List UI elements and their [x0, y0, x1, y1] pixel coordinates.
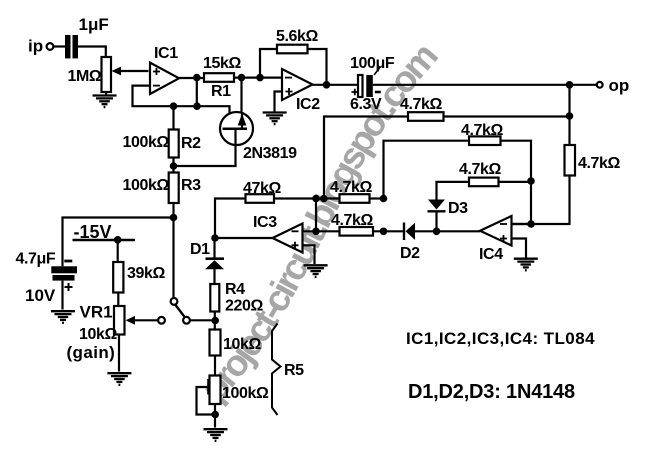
ground under VR1 — [107, 373, 131, 385]
wire 5.6k left leg — [260, 49, 277, 78]
node feedback dot A — [170, 102, 178, 110]
node D3 bottom dot — [433, 228, 441, 236]
ground under IC4 — [514, 259, 538, 271]
op-amp IC4 (points left) — [480, 216, 512, 246]
wiper arrow of VR1 — [126, 316, 159, 325]
node op terminal — [597, 82, 603, 88]
resistor R2 100k — [169, 130, 179, 158]
resistor R4 220 — [210, 284, 219, 312]
op-amp IC3 (points left) — [273, 224, 303, 253]
node R1 right dot — [238, 74, 246, 82]
wire R4 bottom — [214, 312, 216, 330]
svg-text:4.7kΩ: 4.7kΩ — [331, 212, 374, 229]
wire 4.7k a right — [444, 115, 570, 117]
svg-text:-15V: -15V — [74, 222, 112, 242]
wire R2 top — [172, 106, 174, 129]
node feedback dot B — [193, 102, 201, 110]
svg-text:D1,D2,D3: 1N4148: D1,D2,D3: 1N4148 — [408, 381, 575, 403]
svg-text:R2: R2 — [181, 135, 201, 152]
wire 4.7k c left to D3 — [437, 182, 470, 200]
wire 4.7k b right leg — [501, 141, 532, 224]
wire IC1 -in feedback — [133, 86, 230, 128]
svg-text:IC3: IC3 — [253, 214, 277, 231]
wire IC4 +in to ground — [512, 239, 527, 258]
node 4.7k r1 right dot — [566, 112, 574, 120]
svg-text:R5: R5 — [284, 362, 304, 379]
wire op node down — [568, 85, 570, 145]
wire to cap 4.7uF — [63, 218, 174, 267]
svg-text:220Ω: 220Ω — [225, 298, 263, 315]
svg-text:47kΩ: 47kΩ — [243, 180, 281, 197]
svg-text:1μF: 1μF — [79, 15, 109, 34]
svg-text:4.7kΩ: 4.7kΩ — [330, 179, 373, 196]
svg-text:10V: 10V — [25, 286, 56, 305]
node R3 bottom dot — [170, 214, 178, 222]
node R4 bottom dot — [211, 317, 219, 325]
diode D3 — [428, 200, 446, 232]
wire C1 to 1M pot — [78, 47, 106, 58]
wire IC4 -in — [512, 223, 532, 225]
switch blade — [175, 305, 185, 318]
svg-text:D3: D3 — [448, 200, 468, 217]
wire 47k right — [274, 197, 340, 199]
wire IC2 output — [313, 84, 360, 86]
node IC2 output dot — [323, 81, 331, 89]
svg-text:4.7kΩ: 4.7kΩ — [461, 122, 504, 139]
node IC3 -in dot — [312, 228, 320, 236]
svg-text:4.7kΩ: 4.7kΩ — [400, 96, 443, 113]
wire ip to C1 — [53, 45, 65, 47]
node IC3 out dot — [211, 234, 219, 242]
svg-text:(gain): (gain) — [67, 343, 116, 362]
svg-text:IC1,IC2,IC3,IC4: TL084: IC1,IC2,IC3,IC4: TL084 — [406, 329, 595, 348]
brace R5 — [272, 324, 281, 416]
svg-text:10kΩ: 10kΩ — [79, 326, 117, 343]
node row A dot 2 — [320, 195, 328, 203]
svg-text:R1: R1 — [211, 83, 231, 100]
svg-text:IC4: IC4 — [479, 246, 503, 263]
svg-text:R3: R3 — [181, 177, 201, 194]
resistor 5.6k — [277, 45, 308, 54]
wire 4.7k c right leg — [499, 181, 532, 183]
svg-text:100kΩ: 100kΩ — [123, 134, 170, 151]
transistor Q1 2N3819 — [174, 112, 254, 166]
resistor 4.7k a — [408, 112, 444, 121]
resistor 47k — [246, 194, 275, 203]
svg-text:4.7kΩ: 4.7kΩ — [459, 161, 502, 178]
node row A right dot — [380, 195, 388, 203]
node row A dot 1 — [312, 195, 320, 203]
wire 100k bottom — [214, 404, 216, 428]
wire 4.7k b left leg — [384, 141, 470, 199]
svg-text:D2: D2 — [400, 245, 420, 262]
node op branch dot — [566, 81, 574, 89]
trimmer 100k (R5 chain) — [210, 376, 221, 405]
capacitor C 1uF — [65, 35, 78, 58]
svg-text:IC1: IC1 — [154, 45, 178, 62]
svg-text:2N3819: 2N3819 — [243, 145, 297, 162]
resistor 4.7k c — [469, 178, 499, 187]
node bottom dot — [211, 411, 219, 419]
svg-text:ip: ip — [28, 37, 43, 56]
resistor 4.7k b — [469, 136, 501, 145]
wire IC3 -in — [303, 230, 340, 232]
svg-text:IC2: IC2 — [296, 96, 320, 113]
node IC4 -in dot — [527, 220, 535, 228]
resistor 4.7k e — [340, 227, 374, 236]
wire output to feedback — [196, 78, 198, 107]
wire R2 bottom to R3 — [172, 158, 174, 173]
wire 1M to ground — [105, 92, 107, 95]
svg-text:1MΩ: 1MΩ — [68, 68, 102, 85]
resistor R3 100k — [169, 173, 179, 204]
svg-text:100μF: 100μF — [350, 55, 395, 72]
wire D1 top — [213, 238, 215, 258]
trimmer wiper T-bar — [197, 379, 213, 415]
capacitor C 4.7uF — [51, 261, 77, 291]
svg-text:10kΩ: 10kΩ — [223, 336, 261, 353]
capacitor C 100uF — [352, 68, 381, 97]
ground bottom — [204, 429, 228, 441]
ground under IC3 — [304, 265, 328, 277]
ground under 4.7uF — [51, 311, 75, 323]
svg-text:100kΩ: 100kΩ — [123, 177, 170, 194]
wire JFET drain — [240, 78, 242, 113]
diode D1 — [205, 259, 224, 284]
node ip terminal — [47, 43, 54, 50]
node R2/R3 junction — [170, 162, 178, 170]
svg-text:39kΩ: 39kΩ — [127, 265, 165, 282]
op-amp IC1 — [150, 63, 179, 94]
wire 4.7k f bottom to IC4 — [512, 176, 570, 225]
resistor R1 15k — [204, 73, 234, 82]
node -15V dot — [114, 236, 122, 244]
wire R3 bottom — [172, 203, 174, 218]
-15V rail bar — [73, 239, 136, 241]
wire 4.7uF to ground — [61, 281, 63, 310]
svg-text:op: op — [609, 76, 630, 95]
svg-text:6.3V: 6.3V — [350, 96, 382, 113]
diode D2 (points left) — [404, 223, 480, 241]
wire IC2 +in to ground — [275, 92, 283, 112]
resistor 4.7k d — [340, 194, 370, 203]
resistor 10k (R5 chain) — [210, 330, 221, 356]
node IC1 output dot — [193, 74, 201, 82]
svg-text:4.7μF: 4.7μF — [16, 251, 56, 268]
wire 100uF to op — [373, 84, 597, 86]
svg-text:R4: R4 — [225, 281, 245, 298]
node mid column dot — [527, 177, 535, 185]
switch contact B — [183, 317, 190, 324]
svg-text:project-circuit.blogspot.com: project-circuit.blogspot.com — [193, 35, 446, 409]
svg-text:4.7kΩ: 4.7kΩ — [578, 155, 621, 172]
op-amp IC2 — [282, 69, 313, 100]
wire VR1 to ground — [118, 335, 120, 372]
node VR1 wiper terminal — [158, 317, 165, 324]
wire IC3 output — [215, 237, 273, 239]
resistor 4.7k f vertical — [565, 145, 576, 176]
resistor 39k — [113, 262, 123, 293]
wire R1 to IC2 — [234, 76, 282, 78]
row A: wire 47k — [215, 199, 246, 239]
wire 5.6k right leg — [308, 49, 327, 85]
potentiometer VR1 body — [114, 306, 125, 335]
ground under IC2 — [263, 113, 287, 125]
wire 4.7k e right — [373, 230, 404, 232]
svg-text:5.6kΩ: 5.6kΩ — [276, 28, 319, 45]
wire 10k to 100k — [214, 356, 216, 376]
wire corner to 4.7k a — [324, 117, 408, 199]
svg-text:VR1: VR1 — [80, 303, 113, 322]
wire R3 node down to switch — [172, 218, 174, 299]
wire IC1 output — [179, 77, 204, 79]
potentiometer 1M body — [102, 57, 112, 92]
switch contact A — [171, 298, 178, 305]
svg-text:D1: D1 — [190, 241, 210, 258]
wire switch to R4 node — [190, 319, 216, 321]
ground under 1M — [93, 96, 117, 108]
svg-text:15kΩ: 15kΩ — [203, 55, 241, 72]
wire 4.7k d right — [370, 197, 384, 199]
wiper arrow of 1M pot — [112, 67, 149, 76]
wire -15V to 39k — [117, 240, 119, 262]
svg-text:100kΩ: 100kΩ — [222, 385, 269, 402]
wire row A to row B vertical — [315, 199, 317, 232]
wire IC3 +in to ground — [303, 245, 315, 264]
wire 39k to VR1 — [117, 293, 119, 307]
node 5.6k tap dot — [256, 74, 264, 82]
node row B dot — [380, 228, 388, 236]
